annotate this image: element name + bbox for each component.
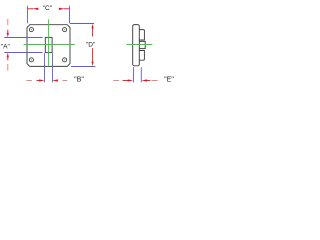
extension line E left [133,67,135,82]
dimension E left arrow [113,79,133,81]
svg-text:"D": "D" [86,41,96,48]
hole bottom-left center mark [31,59,32,60]
hole bottom-right center mark [64,59,65,60]
svg-text:"A": "A" [1,43,11,50]
horizontal centerline side view [126,44,152,46]
dimension D bottom arrow [92,48,94,66]
svg-text:"C": "C" [43,5,53,12]
side view middle boss [139,41,145,48]
vertical centerline [48,19,50,66]
horizontal centerline front view [24,44,75,46]
side view bottom lug [139,51,144,61]
extension line A bottom [4,52,42,54]
hole top-left center mark [31,29,32,30]
extension line B right [52,53,54,82]
dimension C left arrow [28,8,39,10]
hole bottom-left [29,58,33,62]
extension line D bottom [71,66,96,68]
extension line D top [70,23,94,25]
dimension C right arrow [59,8,70,10]
extension line C right [69,6,71,23]
hole top-right center mark [64,29,65,30]
dimension A bottom arrow [7,53,9,71]
dimension A top arrow [7,19,9,37]
hole top-right [63,28,67,32]
front view plate outline [27,25,70,67]
svg-text:"B": "B" [74,76,84,83]
extension line E right [140,67,142,82]
extension line B left [44,53,46,82]
dimension B left arrow [26,79,44,81]
central boss rectangle [45,37,52,52]
extension line A top [4,37,42,39]
side view top lug [139,30,144,40]
hole top-left [29,28,33,32]
extension line C left [27,6,29,23]
svg-text:"E": "E" [164,76,174,83]
hole bottom-right [63,58,67,62]
dimension B right arrow [52,79,67,81]
side view body [133,25,140,66]
dimension D top arrow [92,24,94,37]
dimension E right arrow [142,79,158,81]
